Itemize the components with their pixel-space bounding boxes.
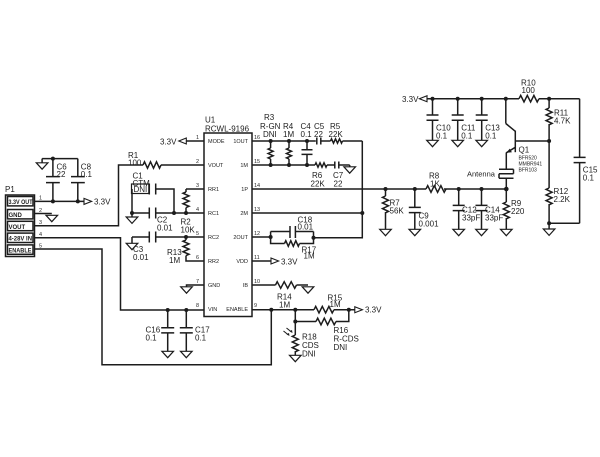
svg-text:3.3V: 3.3V [365, 306, 382, 315]
svg-text:RC2: RC2 [208, 235, 219, 241]
resistor R10 [519, 79, 580, 102]
node C6 bottom junction [51, 199, 55, 203]
svg-text:0.1: 0.1 [301, 130, 313, 139]
capacitor C15 [574, 99, 598, 224]
svg-text:2OUT: 2OUT [233, 235, 248, 241]
svg-text:0.01: 0.01 [133, 253, 149, 262]
pin number U1-10 [254, 279, 260, 285]
node C11 tap [456, 97, 460, 101]
svg-text:1M: 1M [240, 163, 248, 169]
node R12/C15 bottom junction [547, 221, 551, 225]
node R7 [384, 187, 388, 191]
svg-text:U1: U1 [205, 116, 216, 125]
svg-text:BFR103: BFR103 [519, 168, 538, 174]
ground (C17) [181, 351, 193, 357]
wire P1 pin3 VOUT riser to R1 [35, 165, 144, 226]
ground (R14) [302, 287, 314, 293]
svg-text:0.1: 0.1 [461, 132, 473, 141]
svg-text:220: 220 [511, 207, 525, 216]
svg-text:0.001: 0.001 [419, 220, 440, 229]
svg-text:DNI: DNI [334, 343, 348, 352]
ground (C14) [476, 229, 488, 235]
power arrow 3.3V (P1) [84, 197, 111, 206]
wire R5 output riser down to 2M/2OUT [314, 141, 363, 238]
ground (R18) [290, 355, 302, 361]
svg-text:14: 14 [254, 183, 260, 189]
svg-text:12: 12 [254, 231, 260, 237]
capacitor C3 [132, 232, 204, 263]
svg-text:R3: R3 [264, 113, 275, 122]
ground (C6/C8 top) [36, 159, 48, 170]
svg-text:VDD: VDD [236, 259, 248, 265]
pin number U1-7 [196, 279, 199, 285]
svg-text:RC1: RC1 [208, 211, 219, 217]
resistor R12 [546, 141, 571, 223]
ground (C7) [344, 165, 356, 173]
svg-text:1K: 1K [430, 180, 440, 189]
svg-text:VOUT: VOUT [9, 225, 26, 231]
svg-text:DNI: DNI [263, 130, 277, 139]
svg-text:3.3V: 3.3V [281, 257, 298, 266]
node C17 junction [184, 308, 188, 312]
resistor R15 [314, 293, 355, 313]
power arrow 3.3V (top rail) [402, 95, 427, 104]
svg-text:33pF: 33pF [485, 214, 503, 223]
wire 3.3V top rail [427, 98, 519, 100]
capacitor C11 [452, 99, 476, 141]
svg-text:100: 100 [522, 86, 536, 95]
resistor R6 [311, 163, 335, 189]
resistor R2 [181, 189, 205, 235]
node C4 top [305, 139, 309, 143]
node R2 bottom junction [184, 211, 188, 215]
svg-text:1M: 1M [169, 256, 180, 265]
pin number P1-5 [39, 244, 42, 250]
resistor R1 [128, 151, 161, 168]
wire R1 to U1 VOUT [161, 164, 204, 166]
svg-text:5: 5 [196, 231, 199, 237]
node C14 [480, 187, 484, 191]
connector P1 [5, 185, 35, 257]
node Q1 collector tap [504, 97, 508, 101]
wire C6/C8 top [42, 158, 78, 160]
pin number U1-9 [254, 303, 257, 309]
svg-text:10K: 10K [181, 226, 196, 235]
pin number U1-14 [254, 183, 260, 189]
pin number P1-2 [39, 208, 42, 214]
node combo right [312, 236, 316, 240]
resistor R9 [503, 189, 525, 229]
wire 1OUT net (pin16) [252, 140, 316, 142]
wire P1 pin2 to ground [35, 213, 52, 215]
ground (C11) [452, 140, 464, 146]
svg-text:8: 8 [196, 303, 199, 309]
ground (R12/C15) [543, 223, 555, 235]
node C10 tap [431, 97, 435, 101]
ground (C13) [476, 140, 488, 146]
ground (C12) [453, 229, 465, 235]
node R4 top [287, 139, 291, 143]
transistor Q1 [506, 99, 549, 174]
node R11 tap [547, 97, 551, 101]
capacitor C5 [314, 122, 331, 145]
node C9 [413, 187, 417, 191]
svg-text:1M: 1M [304, 252, 315, 261]
svg-text:IB: IB [243, 283, 249, 289]
svg-text:0.1: 0.1 [436, 132, 448, 141]
svg-text:15: 15 [254, 159, 260, 165]
pin number U1-8 [196, 303, 199, 309]
node C12 [457, 187, 461, 191]
node R18 tap [293, 308, 297, 312]
pin number U1-11 [254, 255, 260, 261]
svg-text:3.3V OUT: 3.3V OUT [9, 200, 33, 206]
IC U1 RCWL-9196 [204, 116, 252, 317]
svg-text:ENABLE: ENABLE [9, 248, 32, 254]
pin number U1-12 [254, 231, 260, 237]
svg-text:22K: 22K [311, 180, 326, 189]
ground (C9) [409, 229, 421, 235]
svg-text:13: 13 [254, 207, 260, 213]
svg-text:2: 2 [196, 159, 199, 165]
pin number P1-3 [39, 220, 42, 226]
svg-text:MODE: MODE [208, 139, 225, 145]
svg-text:Antenna: Antenna [467, 170, 496, 179]
svg-text:4-28V IN: 4-28V IN [9, 237, 33, 243]
antenna [467, 169, 514, 189]
svg-text:GND: GND [9, 213, 23, 219]
svg-text:16: 16 [254, 135, 260, 141]
svg-text:10: 10 [254, 279, 260, 285]
node R3 top [269, 139, 273, 143]
svg-text:100: 100 [128, 159, 142, 168]
node C1 right junction [172, 211, 176, 215]
wire 1P net (pin14) [252, 188, 426, 190]
resistor R16 (R-CDS DNI) [295, 310, 359, 352]
capacitor C6 [46, 159, 67, 202]
wire ENABLE net (pin9) [252, 309, 314, 311]
svg-text:22K: 22K [329, 130, 344, 139]
svg-text:22: 22 [57, 170, 66, 179]
node R3 bottom [269, 163, 273, 167]
svg-text:1OUT: 1OUT [233, 139, 248, 145]
node C16 junction [166, 308, 170, 312]
node combo left [269, 235, 273, 239]
svg-text:0.1: 0.1 [485, 132, 497, 141]
resistor R5 [329, 122, 363, 143]
svg-text:22: 22 [334, 180, 343, 189]
svg-text:VIN: VIN [208, 307, 217, 313]
svg-text:22: 22 [314, 130, 323, 139]
svg-text:0.1: 0.1 [195, 334, 207, 343]
wire P1 pin4 to VIN line [35, 238, 205, 310]
svg-text:9: 9 [254, 303, 257, 309]
capacitor C14 [476, 189, 504, 229]
ground (P1 GND pin) [46, 215, 58, 221]
node C13 tap [480, 97, 484, 101]
capacitor C17 [180, 310, 210, 351]
svg-text:3.3V: 3.3V [94, 197, 111, 206]
node C4 bottom [305, 163, 309, 167]
pin number U1-4 [196, 207, 199, 213]
svg-text:0.01: 0.01 [298, 223, 314, 232]
power arrow 3.3V (U1 VDD pin11) [252, 257, 298, 266]
pin number U1-5 [196, 231, 199, 237]
pin number P1-1 [39, 196, 42, 202]
resistor R4 [283, 122, 294, 165]
wire 1M net (pin15) [252, 164, 313, 166]
svg-text:1: 1 [196, 135, 199, 141]
svg-text:0.1: 0.1 [81, 170, 93, 179]
svg-text:1: 1 [39, 196, 42, 202]
pin number U1-6 [196, 255, 199, 261]
wire C1 left to RC1 node [131, 189, 133, 213]
resistor R11 [546, 99, 571, 141]
ground (R9) [501, 229, 513, 235]
capacitor C16 [146, 310, 175, 351]
resistor R18 (CDS DNI photoresistor) [284, 322, 319, 359]
capacitor C9 [409, 189, 439, 229]
svg-text:1P: 1P [241, 187, 248, 193]
capacitor C4 [301, 122, 313, 165]
capacitor C12 [453, 189, 481, 229]
svg-text:1M: 1M [279, 301, 290, 310]
svg-text:2M: 2M [240, 211, 248, 217]
capacitor C1 (CTM DNI) [132, 172, 175, 214]
svg-text:4.7K: 4.7K [554, 117, 571, 126]
wire 2M net (pin13) [252, 212, 362, 214]
ground (C10) [427, 140, 439, 146]
node enable left riser [269, 308, 273, 312]
pin number U1-3 [196, 183, 199, 189]
node R16 branch [293, 320, 297, 324]
resistor R14 (IB pin10) [252, 282, 308, 310]
svg-text:2.2K: 2.2K [554, 195, 571, 204]
svg-text:DNI: DNI [302, 350, 316, 359]
svg-text:RCWL-9196: RCWL-9196 [205, 124, 250, 133]
pin number U1-15 [254, 159, 260, 165]
resistor R17 (bottom branch) [271, 232, 317, 261]
pin number U1-1 [196, 135, 199, 141]
svg-text:7: 7 [196, 279, 199, 285]
resistor R13 [167, 237, 204, 265]
power arrow 3.3V (ENABLE) [355, 306, 382, 315]
svg-text:DNI: DNI [134, 185, 148, 194]
svg-text:ENABLE: ENABLE [226, 307, 248, 313]
resistor R8 [426, 172, 446, 193]
wire 2OUT (pin12) to parallel pair [252, 236, 271, 238]
svg-text:0.1: 0.1 [583, 174, 595, 183]
pin number P1-4 [39, 232, 42, 238]
wire bottom right to C15 [549, 222, 580, 224]
svg-text:4: 4 [196, 207, 199, 213]
ground (U1 GND pin7) [181, 285, 204, 293]
svg-text:RR1: RR1 [208, 187, 219, 193]
svg-text:0.01: 0.01 [157, 224, 173, 233]
node R15/R16 right [347, 308, 351, 312]
svg-text:3.3V: 3.3V [402, 95, 419, 104]
svg-text:3: 3 [196, 183, 199, 189]
node R4 bottom [287, 163, 291, 167]
resistor R7 [383, 189, 405, 229]
svg-text:VOUT: VOUT [208, 163, 224, 169]
node C6 top junction [51, 157, 55, 161]
svg-text:1M: 1M [283, 130, 294, 139]
svg-text:3.3V: 3.3V [160, 137, 177, 146]
wire P1 pin1 to 3.3V arrow [35, 200, 85, 202]
capacitor C10 [427, 99, 452, 141]
resistor R3 (R-GN DNI) [260, 113, 281, 165]
svg-text:56K: 56K [390, 207, 405, 216]
svg-text:GND: GND [208, 283, 220, 289]
power arrow 3.3V (U1 MODE) [160, 137, 204, 146]
svg-text:0.1: 0.1 [146, 334, 158, 343]
pin number U1-2 [196, 159, 199, 165]
pin number U1-13 [254, 207, 260, 213]
svg-text:RR2: RR2 [208, 259, 219, 265]
node antenna/R9 [504, 187, 509, 192]
svg-text:11: 11 [254, 255, 260, 261]
ground (C16) [162, 351, 174, 357]
node Q1 base junction [547, 139, 551, 143]
svg-text:P1: P1 [5, 185, 15, 194]
capacitor C8 [71, 159, 92, 202]
svg-text:Q1: Q1 [519, 146, 530, 155]
svg-text:6: 6 [196, 255, 199, 261]
svg-text:1M: 1M [330, 300, 341, 309]
node R13 top junction [184, 235, 188, 239]
wire 1P net after R8 [444, 188, 506, 190]
pin number U1-16 [254, 135, 260, 141]
capacitor C18 (top branch) [271, 216, 314, 239]
capacitor C13 [476, 99, 501, 141]
ground (C1/C2) [126, 213, 138, 223]
node C1/C2 ground junction [130, 211, 134, 215]
node 2M riser junction [360, 211, 364, 215]
capacitor C7 [333, 162, 350, 189]
capacitor C2 [132, 208, 204, 233]
ground (C3 left) [126, 237, 138, 250]
ground (R7) [380, 229, 392, 235]
node C8 bottom junction [76, 199, 80, 203]
svg-text:33pF: 33pF [462, 214, 480, 223]
wire P1 pin5 ENABLE long route [35, 249, 272, 365]
